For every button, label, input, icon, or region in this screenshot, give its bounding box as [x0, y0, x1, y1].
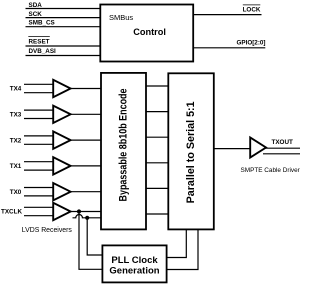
wire RESET (active low) [26, 45, 101, 47]
svg-text:PLL Clock: PLL Clock [111, 255, 158, 266]
wire encode to serializer bus 6 [146, 213, 168, 215]
wire TX4 out [71, 88, 101, 90]
row TXCLK [1, 203, 101, 220]
node label RESET with overline [28, 36, 50, 45]
wire serial out [214, 148, 250, 150]
wire TX2+ [24, 135, 53, 137]
wire TXCLK out [71, 211, 101, 213]
svg-text:SMB_CS: SMB_CS [29, 19, 55, 26]
wire TX4+ [24, 83, 53, 85]
wire TXOUT- [263, 153, 300, 155]
wire encode to serializer bus 1 [146, 85, 168, 87]
buffer TXCLK LVDS receiver [53, 203, 70, 220]
svg-text:Control: Control [133, 27, 166, 37]
wire TX3- [24, 118, 53, 120]
svg-text:SCK: SCK [29, 11, 43, 18]
svg-text:TX3: TX3 [10, 112, 22, 119]
svg-text:TX2: TX2 [10, 137, 22, 144]
wire TXCLK+ [24, 206, 53, 208]
row TX4 [10, 80, 101, 97]
buffer TX4 LVDS receiver [53, 80, 70, 97]
wire TX1+ [24, 161, 53, 163]
svg-text:SMPTE Cable Driver: SMPTE Cable Driver [241, 167, 301, 174]
wire TX0 out [71, 191, 101, 193]
buffer SMPTE cable driver [250, 138, 266, 158]
wire TX1 out [71, 165, 101, 167]
svg-text:LVDS Receivers: LVDS Receivers [22, 227, 73, 234]
wire TXCLK to PLL lower [79, 212, 102, 270]
wire TXCLK bypass with hop over vertical [73, 215, 102, 218]
buffer TX2 LVDS receiver [53, 131, 70, 148]
block U2 Bypassable 8b10b Encode [101, 73, 146, 230]
buffer TX3 LVDS receiver [53, 106, 70, 123]
svg-text:RESET: RESET [29, 38, 50, 45]
wire TXOUT+ [266, 147, 301, 149]
svg-text:LOCK: LOCK [243, 7, 261, 14]
junction dot on TXCLK bypass [85, 216, 89, 220]
svg-text:TX0: TX0 [10, 189, 22, 196]
wire LOCK output [193, 14, 261, 16]
wire encode to serializer bus 2 [146, 111, 168, 113]
svg-text:SDA: SDA [29, 2, 43, 9]
svg-text:TX4: TX4 [10, 86, 22, 93]
wire TX1- [24, 169, 53, 171]
wire TX2- [24, 143, 53, 145]
wire encode to serializer bus 3 [146, 136, 168, 138]
svg-text:DVB_ASI: DVB_ASI [29, 48, 57, 55]
buffer TX0 LVDS receiver [53, 183, 70, 200]
wire encode to serializer bus 5 [146, 187, 168, 189]
wire TXCLK- [24, 215, 53, 217]
wire TXCLK bypass to PLL upper [87, 218, 102, 255]
wire GPIO[2:0] output [193, 47, 265, 49]
wire SCK [26, 17, 101, 19]
buffer TX1 LVDS receiver [53, 157, 70, 174]
wire TX0- [24, 195, 53, 197]
wire DVB_ASI [26, 55, 101, 57]
wire TX0+ [24, 187, 53, 189]
wire SDA [26, 8, 101, 10]
svg-text:Generation: Generation [109, 265, 159, 276]
svg-text:TX1: TX1 [10, 163, 22, 170]
wire TX4- [24, 92, 53, 94]
block U3 Parallel to Serial 5:1 [168, 73, 214, 229]
wire PLL to serializer clock 2 [167, 229, 198, 269]
svg-text:Parallel to Serial 5:1: Parallel to Serial 5:1 [185, 101, 197, 203]
row TX3 [10, 106, 101, 123]
svg-text:Bypassable 8b10b Encode: Bypassable 8b10b Encode [118, 88, 130, 201]
svg-text:TXOUT: TXOUT [272, 139, 293, 146]
block U4 PLL Clock Generation [102, 245, 166, 282]
wire TX2 out [71, 139, 101, 141]
junction dot on TXCLK out [77, 209, 81, 213]
svg-text:GPIO[2:0]: GPIO[2:0] [236, 40, 265, 47]
wire PLL to serializer clock 1 [167, 229, 187, 257]
svg-text:TXCLK: TXCLK [1, 209, 22, 216]
row TX2 [10, 131, 101, 148]
wire TX3+ [24, 109, 53, 111]
svg-text:SMBus: SMBus [109, 13, 133, 22]
wire encode to serializer bus 4 [146, 162, 168, 164]
wire TX3 out [71, 113, 101, 115]
row TX0 [10, 183, 101, 200]
block U1 Control [100, 5, 193, 62]
node label LOCK with overline [243, 5, 261, 14]
row TX1 [10, 157, 101, 174]
wire SMB_CS [26, 26, 101, 28]
